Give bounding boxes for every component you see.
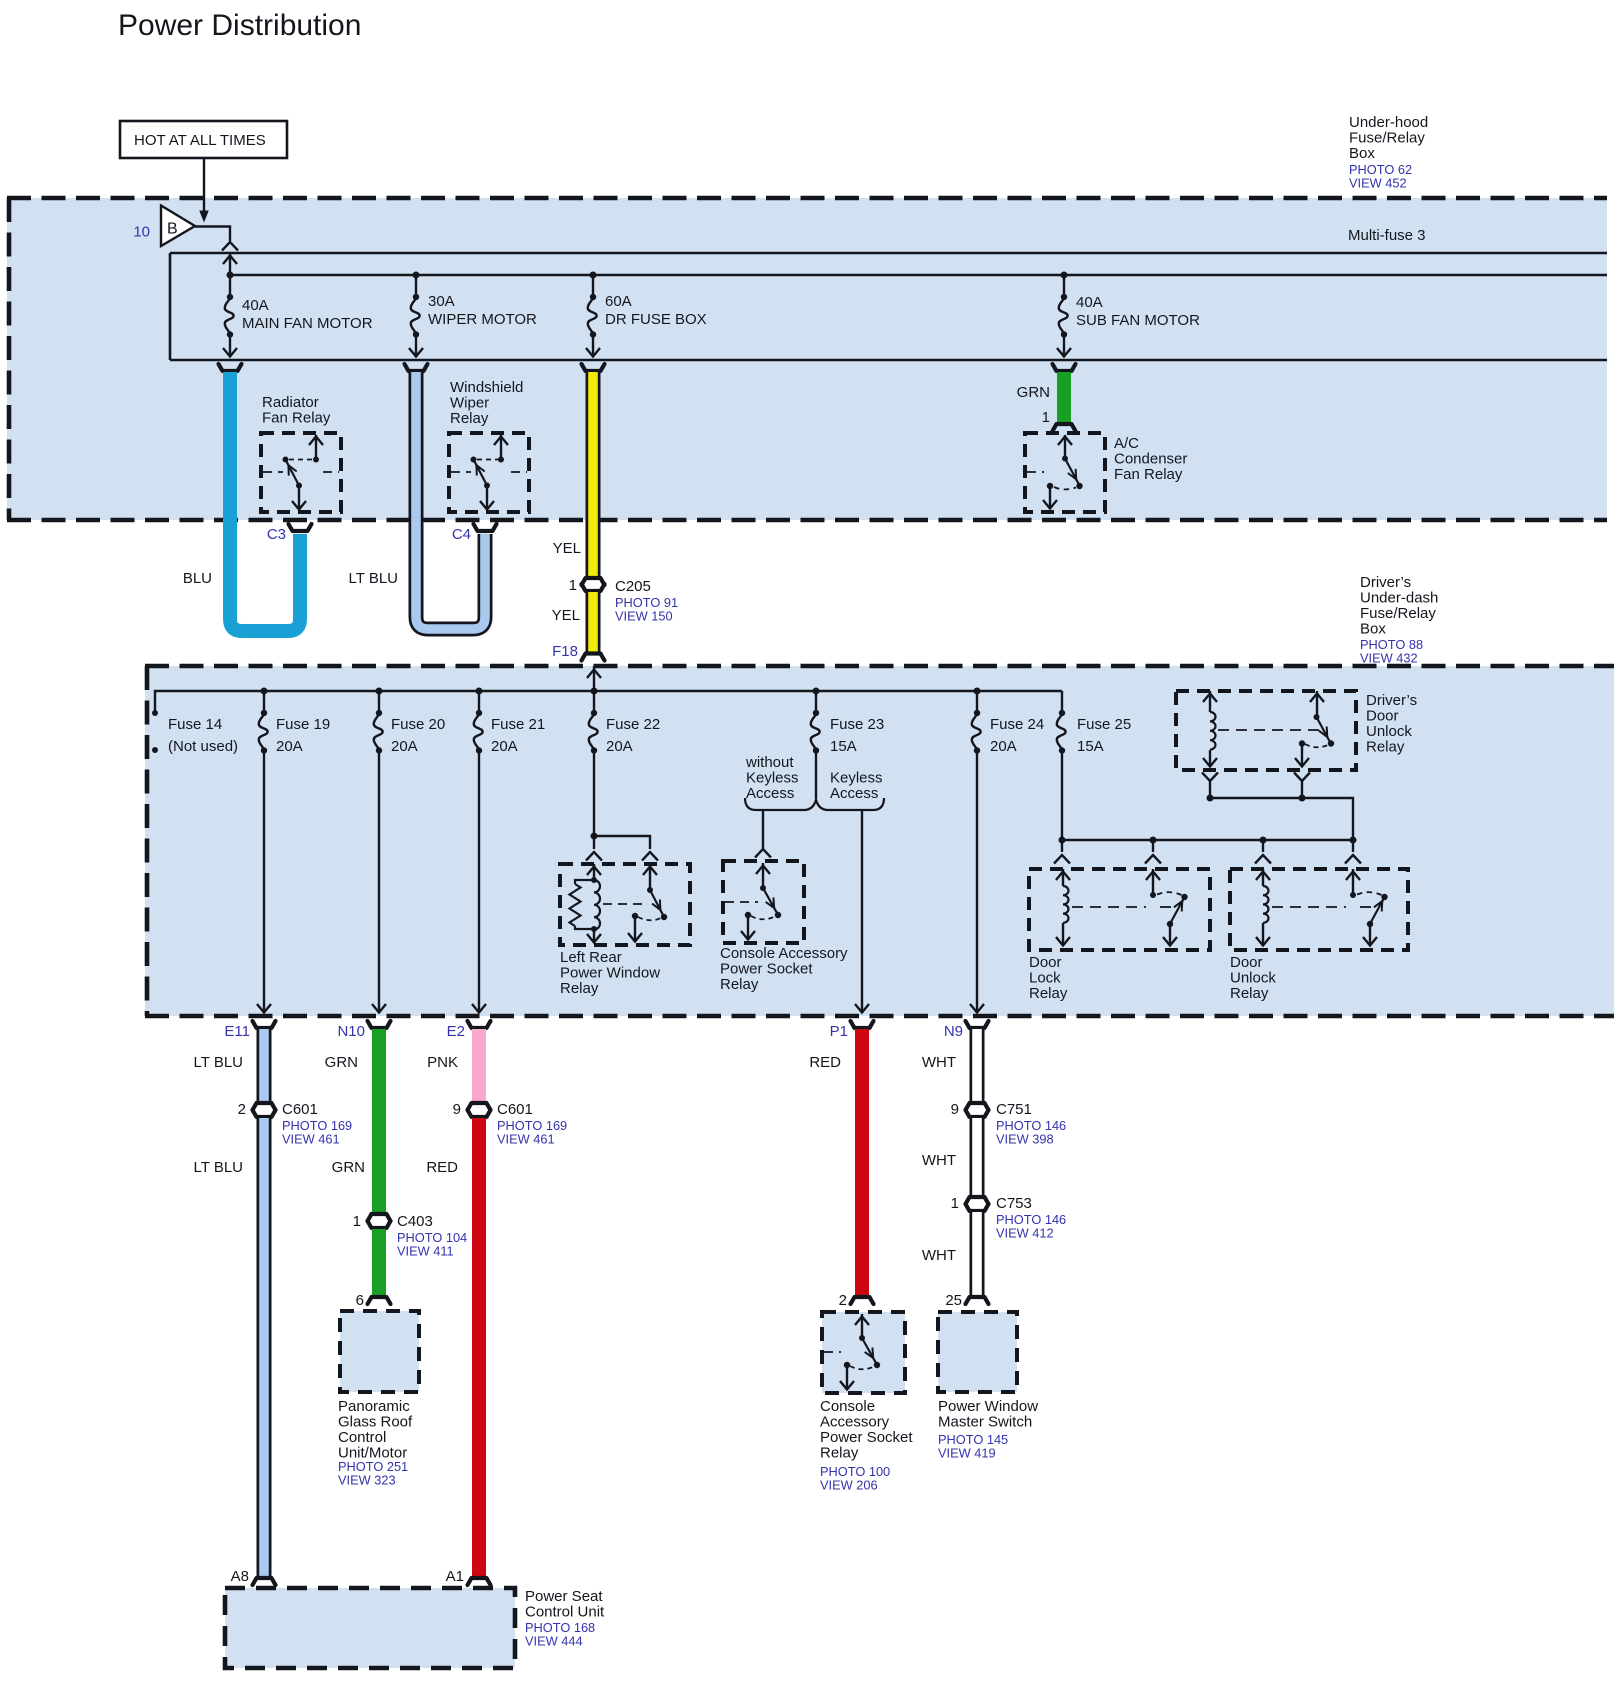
svg-text:WHT: WHT bbox=[922, 1152, 956, 1169]
svg-text:N10: N10 bbox=[337, 1023, 365, 1040]
bus wire in under-dash box bbox=[155, 691, 1062, 713]
relay Driver's Door Unlock Relay bbox=[1176, 691, 1417, 770]
svg-text:20A: 20A bbox=[276, 738, 303, 755]
wire LT BLU E11 lower bbox=[194, 1118, 264, 1576]
wire BLU bbox=[183, 364, 300, 631]
bus wire in multi-fuse box bbox=[230, 274, 1607, 276]
svg-text:20A: 20A bbox=[391, 738, 418, 755]
wire YEL lower bbox=[552, 592, 593, 652]
connector B (terminal 10) bbox=[133, 206, 195, 247]
pin 25 bbox=[945, 1292, 988, 1309]
svg-text:40A: 40A bbox=[242, 297, 269, 314]
relay Door Lock Relay bbox=[1029, 869, 1210, 1002]
relay Radiator Fan Relay bbox=[261, 394, 341, 512]
svg-text:Fuse 25: Fuse 25 bbox=[1077, 716, 1131, 733]
connector C753 pin 1 bbox=[951, 1195, 1067, 1241]
multi-fuse 3 box bbox=[170, 253, 1607, 360]
svg-text:Fuse 22: Fuse 22 bbox=[606, 716, 660, 733]
svg-text:WIPER MOTOR: WIPER MOTOR bbox=[428, 311, 537, 328]
svg-text:RED: RED bbox=[809, 1054, 841, 1071]
svg-text:PHOTO 88VIEW 432: PHOTO 88VIEW 432 bbox=[1360, 637, 1423, 666]
under-hood fuse/relay box bbox=[7, 198, 1607, 520]
svg-text:B: B bbox=[167, 221, 178, 238]
svg-text:C4: C4 bbox=[452, 526, 471, 543]
fuse 40A MAIN FAN MOTOR bbox=[223, 275, 373, 357]
svg-text:WHT: WHT bbox=[922, 1247, 956, 1264]
svg-text:20A: 20A bbox=[491, 738, 518, 755]
svg-text:VIEW 412: VIEW 412 bbox=[996, 1226, 1054, 1241]
svg-text:9: 9 bbox=[453, 1101, 461, 1118]
svg-text:P1: P1 bbox=[830, 1023, 848, 1040]
svg-text:A1: A1 bbox=[446, 1568, 464, 1585]
svg-text:E11: E11 bbox=[224, 1023, 250, 1040]
svg-text:Fuse 21: Fuse 21 bbox=[491, 716, 545, 733]
wire without keyless access branch bbox=[755, 809, 771, 858]
fuse 60A DR FUSE BOX bbox=[586, 272, 707, 357]
pin A1 bbox=[446, 1568, 491, 1585]
svg-text:GRN: GRN bbox=[325, 1054, 358, 1071]
component Panoramic Glass Roof Control Unit/Motor bbox=[338, 1311, 419, 1488]
node P1 bbox=[830, 1021, 874, 1040]
relay Left Rear Power Window Relay bbox=[560, 864, 690, 997]
wire WHT N9 upper bbox=[922, 1029, 977, 1101]
wire F18 entry bbox=[587, 666, 601, 695]
svg-text:9: 9 bbox=[951, 1101, 959, 1118]
svg-text:HOT AT ALL TIMES: HOT AT ALL TIMES bbox=[134, 132, 266, 149]
fuse Fuse 21 20A bbox=[472, 688, 545, 1013]
wire from HOT label to connector B bbox=[199, 158, 209, 223]
svg-text:VIEW 461: VIEW 461 bbox=[282, 1132, 340, 1147]
node N10 bbox=[337, 1021, 390, 1040]
svg-text:Fuse 20: Fuse 20 bbox=[391, 716, 445, 733]
pin 6 bbox=[356, 1292, 391, 1309]
relay A/C Condenser Fan Relay bbox=[1025, 433, 1187, 512]
fuse Fuse 23 15A bbox=[811, 688, 884, 800]
wire GRN to A/C relay bbox=[1017, 364, 1076, 431]
svg-text:2: 2 bbox=[238, 1101, 246, 1118]
under-dash fuse/relay box bbox=[145, 666, 1614, 1016]
wire LT BLU E11 upper bbox=[194, 1029, 264, 1101]
svg-text:E2: E2 bbox=[447, 1023, 465, 1040]
svg-text:DR FUSE BOX: DR FUSE BOX bbox=[605, 311, 707, 328]
connector C751 pin 9 bbox=[951, 1101, 1067, 1147]
label Driver's Under-dash Fuse/Relay Box bbox=[1360, 574, 1438, 666]
svg-text:60A: 60A bbox=[605, 293, 632, 310]
wire lower bus bbox=[1054, 837, 1361, 864]
svg-text:Power SeatControl Unit: Power SeatControl Unit bbox=[525, 1588, 605, 1621]
svg-text:YEL: YEL bbox=[553, 540, 581, 557]
svg-text:YEL: YEL bbox=[552, 607, 580, 624]
connector C601 pin 9 bbox=[453, 1101, 568, 1147]
node N9 bbox=[944, 1021, 989, 1040]
fuse Fuse 14 (Not used) bbox=[152, 710, 238, 755]
label HOT AT ALL TIMES bbox=[120, 121, 287, 158]
fuse Fuse 25 15A bbox=[1057, 691, 1131, 840]
svg-text:LT BLU: LT BLU bbox=[194, 1054, 243, 1071]
svg-text:VIEW 411: VIEW 411 bbox=[397, 1244, 454, 1259]
svg-text:LT BLU: LT BLU bbox=[194, 1159, 243, 1176]
connector C601 pin 2 bbox=[238, 1101, 353, 1147]
svg-text:Power WindowMaster Switch: Power WindowMaster Switch bbox=[938, 1398, 1038, 1431]
svg-text:1: 1 bbox=[569, 577, 577, 594]
label Under-hood Fuse/Relay Box bbox=[1349, 114, 1428, 191]
svg-text:LT BLU: LT BLU bbox=[349, 570, 398, 587]
wire GRN N10 upper bbox=[325, 1029, 379, 1212]
svg-text:20A: 20A bbox=[990, 738, 1017, 755]
svg-text:VIEW 398: VIEW 398 bbox=[996, 1132, 1054, 1147]
svg-text:VIEW 461: VIEW 461 bbox=[497, 1132, 555, 1147]
component Power Seat Control Unit bbox=[225, 1588, 605, 1668]
svg-text:2: 2 bbox=[839, 1292, 847, 1309]
svg-text:10: 10 bbox=[133, 224, 150, 241]
fuse 40A SUB FAN MOTOR bbox=[1057, 272, 1200, 357]
connector C4 bbox=[452, 524, 497, 543]
wire fuse 23 alternatives brace bbox=[745, 754, 884, 810]
wire WHT N9 lower bbox=[922, 1212, 977, 1295]
svg-text:SUB FAN MOTOR: SUB FAN MOTOR bbox=[1076, 312, 1200, 329]
svg-text:PNK: PNK bbox=[427, 1054, 458, 1071]
svg-text:N9: N9 bbox=[944, 1023, 963, 1040]
svg-text:C205: C205 bbox=[615, 578, 651, 595]
svg-text:WHT: WHT bbox=[922, 1054, 956, 1071]
svg-text:C3: C3 bbox=[267, 526, 286, 543]
fuse Fuse 22 20A bbox=[589, 691, 660, 836]
svg-text:1: 1 bbox=[1042, 409, 1050, 426]
svg-text:15A: 15A bbox=[1077, 738, 1104, 755]
svg-text:30A: 30A bbox=[428, 293, 455, 310]
svg-text:PHOTO 62VIEW 452: PHOTO 62VIEW 452 bbox=[1349, 162, 1412, 191]
svg-text:Fuse 23: Fuse 23 bbox=[830, 716, 884, 733]
svg-text:(Not used): (Not used) bbox=[168, 738, 238, 755]
svg-text:KeylessAccess: KeylessAccess bbox=[830, 770, 883, 803]
wire GRN N10 lower bbox=[372, 1229, 386, 1295]
svg-text:RED: RED bbox=[426, 1159, 458, 1176]
wire PNK E2 bbox=[427, 1029, 479, 1101]
wire RED P1 bbox=[809, 1029, 862, 1295]
node F18 bbox=[552, 643, 604, 661]
fuse Fuse 20 20A bbox=[372, 688, 445, 1013]
node E11 bbox=[224, 1021, 275, 1040]
svg-text:VIEW 150: VIEW 150 bbox=[615, 609, 673, 624]
svg-text:C601: C601 bbox=[282, 1101, 318, 1118]
node E2 bbox=[447, 1021, 491, 1040]
wire YEL upper bbox=[553, 364, 605, 576]
svg-text:Power Distribution: Power Distribution bbox=[118, 9, 361, 42]
wire fuse 22 split bbox=[586, 833, 658, 861]
relay Door Unlock Relay bbox=[1230, 869, 1408, 1002]
component Power Window Master Switch bbox=[938, 1312, 1038, 1461]
relay Windshield Wiper Relay bbox=[449, 379, 529, 512]
pin 2 bbox=[839, 1292, 874, 1309]
svg-text:PanoramicGlass RoofControlUnit: PanoramicGlass RoofControlUnit/Motor bbox=[338, 1398, 413, 1462]
wire WHT N9 middle bbox=[922, 1118, 977, 1195]
svg-text:A8: A8 bbox=[231, 1568, 249, 1585]
wire from B to multi-fuse box bbox=[195, 227, 238, 279]
svg-text:1: 1 bbox=[353, 1213, 361, 1230]
svg-text:15A: 15A bbox=[830, 738, 857, 755]
svg-text:withoutKeylessAccess: withoutKeylessAccess bbox=[745, 754, 799, 802]
pin A8 bbox=[231, 1568, 276, 1585]
svg-text:F18: F18 bbox=[552, 643, 578, 660]
svg-text:6: 6 bbox=[356, 1292, 364, 1309]
svg-text:Fuse 19: Fuse 19 bbox=[276, 716, 330, 733]
svg-text:Fuse 24: Fuse 24 bbox=[990, 716, 1044, 733]
svg-text:C403: C403 bbox=[397, 1213, 433, 1230]
svg-text:40A: 40A bbox=[1076, 294, 1103, 311]
svg-text:C753: C753 bbox=[996, 1195, 1032, 1212]
svg-text:C601: C601 bbox=[497, 1101, 533, 1118]
svg-text:25: 25 bbox=[945, 1292, 962, 1309]
connector C403 pin 1 bbox=[353, 1213, 468, 1259]
wire keyless access branch bbox=[855, 809, 869, 1013]
wire driver's door unlock relay outputs bbox=[1202, 773, 1353, 841]
wire LT BLU bbox=[349, 364, 485, 629]
svg-text:1: 1 bbox=[951, 1195, 959, 1212]
wire RED E2 lower bbox=[426, 1118, 479, 1576]
relay Console Accessory Power Socket Relay (in box) bbox=[720, 861, 848, 993]
relay Console Accessory Power Socket Relay (bottom) bbox=[820, 1312, 913, 1493]
svg-text:BLU: BLU bbox=[183, 570, 212, 587]
svg-text:GRN: GRN bbox=[1017, 384, 1050, 401]
fuse Fuse 24 20A bbox=[970, 688, 1044, 1013]
svg-text:20A: 20A bbox=[606, 738, 633, 755]
svg-text:MAIN FAN MOTOR: MAIN FAN MOTOR bbox=[242, 315, 373, 332]
connector C3 bbox=[267, 524, 312, 543]
svg-text:Multi-fuse 3: Multi-fuse 3 bbox=[1348, 227, 1426, 244]
svg-text:Fuse 14: Fuse 14 bbox=[168, 716, 222, 733]
svg-text:C751: C751 bbox=[996, 1101, 1032, 1118]
svg-text:GRN: GRN bbox=[332, 1159, 365, 1176]
connector C205 bbox=[569, 577, 678, 624]
fuse 30A WIPER MOTOR bbox=[409, 272, 537, 357]
fuse Fuse 19 20A bbox=[257, 688, 330, 1013]
